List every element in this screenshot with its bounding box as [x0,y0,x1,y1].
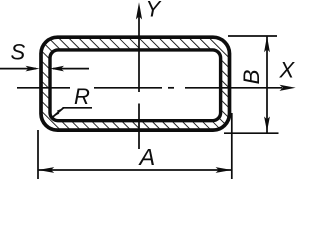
Y axis arrowhead [136,2,142,19]
tube outer contour [41,37,230,130]
svg-text:B: B [239,69,264,84]
dimension B extension lines [224,36,279,133]
X axis arrowhead [280,85,296,91]
A arrow right [216,167,232,173]
dimension B line [266,36,268,133]
svg-text:S: S [11,40,26,65]
B arrow up [264,36,270,52]
B arrow down [264,117,270,132]
svg-text:A: A [138,144,156,170]
dimension A line [38,169,232,171]
svg-text:Y: Y [146,0,162,22]
S arrow left-pointing [50,66,64,72]
tube wall hatching [41,37,230,130]
svg-text:R: R [74,84,90,109]
tube inner contour [50,50,221,121]
dimension A extension lines [38,113,232,179]
R leader arrowhead [51,109,61,118]
R leader line [53,108,92,117]
S arrow right-pointing [26,66,40,72]
X axis centerline [17,87,282,89]
A arrow left [38,167,54,173]
dimension S leader lines [0,68,89,70]
svg-text:X: X [279,58,296,83]
Y axis centerline [138,8,140,149]
